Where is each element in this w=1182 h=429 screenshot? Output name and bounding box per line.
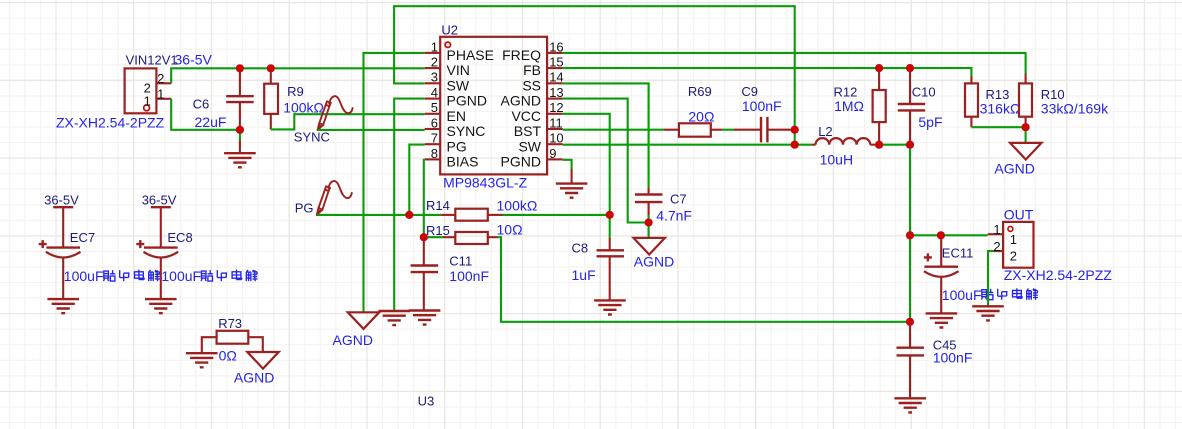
svg-text:C6: C6 bbox=[193, 97, 210, 112]
svg-text:ZX-XH2.54-2PZZ: ZX-XH2.54-2PZZ bbox=[56, 115, 165, 131]
svg-text:PG: PG bbox=[447, 138, 467, 154]
wire SW (pin3) top loop bbox=[394, 6, 795, 130]
svg-text:13: 13 bbox=[549, 85, 563, 100]
wire BIAS (pin8) down bbox=[423, 160, 426, 237]
ground (EC7) bbox=[47, 299, 79, 313]
svg-text:33kΩ/169k: 33kΩ/169k bbox=[1041, 101, 1109, 117]
svg-text:316kΩ: 316kΩ bbox=[980, 100, 1021, 116]
svg-text:14: 14 bbox=[549, 70, 563, 85]
svg-text:1uF: 1uF bbox=[572, 267, 596, 283]
svg-text:4: 4 bbox=[431, 85, 438, 100]
svg-text:C11: C11 bbox=[449, 253, 472, 268]
svg-text:EN: EN bbox=[447, 108, 466, 124]
junction C6 bottom bbox=[236, 126, 244, 134]
capacitor C8 bbox=[609, 238, 611, 250]
svg-text:16: 16 bbox=[549, 39, 563, 54]
svg-text:10Ω: 10Ω bbox=[497, 222, 523, 238]
svg-text:PGND: PGND bbox=[447, 93, 487, 109]
svg-text:R9: R9 bbox=[287, 84, 304, 99]
svg-text:12: 12 bbox=[549, 100, 563, 115]
svg-text:1: 1 bbox=[993, 222, 1000, 237]
svg-text:C10: C10 bbox=[912, 85, 936, 100]
svg-text:6: 6 bbox=[431, 115, 438, 130]
resistor R69 bbox=[664, 129, 679, 131]
svg-text:R15: R15 bbox=[426, 223, 450, 238]
wire PGND (pin4) down-left bbox=[394, 99, 425, 311]
ground (C8) bbox=[594, 300, 626, 314]
junction R10 bottom bbox=[1022, 123, 1030, 131]
svg-text:R73: R73 bbox=[218, 316, 242, 331]
junction VIN/C6 bbox=[236, 64, 244, 72]
inductor L2 bbox=[812, 144, 816, 146]
svg-text:100uF: 100uF bbox=[161, 268, 201, 284]
junction PG/pin7 bbox=[405, 211, 413, 219]
svg-text:C8: C8 bbox=[572, 240, 589, 255]
junction OUT rail bbox=[906, 231, 914, 239]
pin 11 BST bbox=[547, 128, 563, 130]
svg-text:U2: U2 bbox=[441, 22, 458, 37]
svg-text:1MΩ: 1MΩ bbox=[834, 98, 864, 114]
pin 5 EN bbox=[425, 113, 441, 115]
wire PHASE (pin1) down-left bbox=[364, 53, 425, 312]
resistor R15 bbox=[424, 236, 443, 238]
junction bottom rail/C45 bbox=[906, 318, 914, 326]
wire R15 right down to bottom rail bbox=[497, 237, 910, 322]
ground (C11) bbox=[409, 311, 441, 325]
junction BIAS/R15/C11 bbox=[420, 233, 428, 241]
svg-text:4.7nF: 4.7nF bbox=[656, 208, 692, 224]
wire R14 right to VCC node bbox=[503, 214, 610, 216]
svg-text:20Ω: 20Ω bbox=[688, 108, 714, 124]
svg-text:PG: PG bbox=[295, 201, 314, 216]
wire PG (pin7) down-left bbox=[409, 145, 424, 215]
ground (pin9) bbox=[556, 184, 588, 198]
wire SW node to OUT rail bbox=[910, 234, 988, 236]
capacitor C11 bbox=[423, 237, 425, 265]
pin 13 AGND bbox=[547, 98, 563, 100]
pin 15 FB bbox=[547, 67, 563, 69]
svg-text:11: 11 bbox=[549, 115, 563, 130]
svg-text:100nF: 100nF bbox=[742, 98, 782, 114]
svg-text:C7: C7 bbox=[670, 191, 687, 206]
capacitor C7 bbox=[648, 188, 650, 195]
svg-text:36-5V: 36-5V bbox=[175, 51, 213, 67]
svg-text:R14: R14 bbox=[426, 198, 450, 213]
AGND symbol (R13/R10) bbox=[1010, 143, 1041, 160]
svg-text:SS: SS bbox=[522, 77, 541, 93]
svg-text:1: 1 bbox=[157, 87, 164, 102]
svg-text:SYNC: SYNC bbox=[294, 129, 330, 144]
resistor R73 bbox=[217, 331, 249, 344]
AGND symbol (C7) bbox=[634, 238, 665, 255]
svg-text:1: 1 bbox=[431, 39, 438, 54]
pin 10 SW bbox=[547, 143, 563, 145]
svg-text:C9: C9 bbox=[741, 84, 758, 99]
wire SS (pin14) to C7 bbox=[563, 83, 649, 188]
svg-text:3: 3 bbox=[431, 70, 438, 85]
svg-text:VIN12V1: VIN12V1 bbox=[126, 52, 178, 67]
svg-text:7: 7 bbox=[431, 131, 438, 146]
svg-text:100uF: 100uF bbox=[64, 268, 104, 284]
svg-text:15: 15 bbox=[549, 55, 563, 70]
svg-text:MP9843GL-Z: MP9843GL-Z bbox=[443, 174, 527, 190]
ground (OUT pin2) bbox=[972, 306, 1004, 320]
svg-text:1: 1 bbox=[1010, 232, 1017, 247]
ground (EC8) bbox=[145, 299, 177, 313]
probe squiggle SYNC bbox=[318, 96, 353, 130]
svg-text:BIAS: BIAS bbox=[447, 154, 479, 170]
svg-text:2: 2 bbox=[431, 55, 438, 70]
resistor R10 bbox=[1025, 74, 1027, 84]
svg-text:EC11: EC11 bbox=[942, 245, 974, 260]
wire C9 right vertical to SW rail bbox=[794, 130, 796, 145]
svg-text:100nF: 100nF bbox=[449, 268, 489, 284]
ground (C45) bbox=[894, 398, 926, 412]
junction VCC/R14 bbox=[606, 211, 614, 219]
wire SW (pin10) to L2 bbox=[563, 144, 812, 146]
svg-text:PGND: PGND bbox=[501, 154, 541, 170]
wire R69 to C9 bbox=[722, 129, 734, 131]
wire connector pin1 to C6 bottom bbox=[171, 99, 240, 130]
junction FB/C10 bbox=[906, 64, 914, 72]
ground (C6) bbox=[239, 130, 241, 141]
AGND symbol (PHASE net) bbox=[348, 312, 379, 329]
pin 6 SYNC bbox=[425, 128, 441, 130]
svg-text:U3: U3 bbox=[418, 393, 435, 408]
junction VIN/R9 bbox=[267, 64, 275, 72]
svg-text:2: 2 bbox=[993, 239, 1000, 254]
wire PG rail bbox=[317, 214, 441, 216]
svg-text:1: 1 bbox=[144, 93, 151, 108]
svg-text:5: 5 bbox=[431, 100, 438, 115]
pin 16 FREQ bbox=[547, 52, 563, 54]
ground (PGND pin4) bbox=[378, 311, 410, 325]
resistor R14 bbox=[441, 214, 455, 216]
svg-text:10uH: 10uH bbox=[820, 151, 853, 167]
pin 9 PGND bbox=[547, 158, 563, 160]
wire PGND (pin9) to ground bbox=[563, 160, 572, 169]
pin 4 PGND bbox=[425, 98, 441, 100]
pin 8 BIAS bbox=[425, 158, 441, 160]
svg-text:9: 9 bbox=[549, 146, 556, 161]
svg-text:EC8: EC8 bbox=[167, 230, 192, 245]
svg-text:R69: R69 bbox=[688, 84, 712, 99]
junction C9/SW bbox=[791, 141, 799, 149]
AGND symbol (R73) bbox=[247, 352, 278, 369]
electrolytic capacitor EC7 bbox=[46, 246, 80, 248]
wire L2 right / SW node bbox=[875, 145, 910, 322]
junction C7/AGND13 bbox=[645, 218, 653, 226]
wire VCC (pin12) down to C8 bbox=[563, 114, 610, 238]
junction L2/R12 bbox=[875, 141, 883, 149]
svg-text:PHASE: PHASE bbox=[447, 47, 494, 63]
junction FB/R12 bbox=[875, 64, 883, 72]
svg-text:EC7: EC7 bbox=[70, 230, 95, 245]
svg-text:AGND: AGND bbox=[234, 369, 274, 385]
svg-text:36-5V: 36-5V bbox=[44, 193, 79, 208]
pin 1 PHASE bbox=[425, 52, 441, 54]
pin 2 VIN bbox=[425, 67, 441, 69]
junction EC11 bbox=[937, 231, 945, 239]
svg-text:VIN: VIN bbox=[447, 62, 470, 78]
electrolytic capacitor EC8 bbox=[144, 246, 178, 248]
svg-text:SW: SW bbox=[518, 138, 541, 154]
wire VIN rail bbox=[171, 68, 425, 83]
ground (EC11) bbox=[926, 313, 958, 327]
svg-text:5pF: 5pF bbox=[918, 114, 942, 130]
ground (R73 left) bbox=[186, 353, 218, 367]
svg-text:FB: FB bbox=[523, 62, 541, 78]
wire SYNC to pin6 bbox=[318, 129, 425, 131]
resistor R9 bbox=[270, 68, 272, 83]
wire R13/R10 bottom to AGND bbox=[971, 127, 1025, 143]
capacitor C10 bbox=[909, 68, 911, 104]
svg-text:BST: BST bbox=[514, 123, 542, 139]
svg-text:L2: L2 bbox=[818, 124, 832, 139]
svg-text:FREQ: FREQ bbox=[502, 47, 541, 63]
svg-text:100nF: 100nF bbox=[933, 350, 973, 366]
capacitor C6 bbox=[239, 68, 241, 96]
connector P? ZX-XH2.54-2PZZ (input) bbox=[125, 68, 157, 113]
svg-text:SW: SW bbox=[447, 77, 470, 93]
svg-text:100kΩ: 100kΩ bbox=[497, 197, 538, 213]
wire AGND (pin13) bbox=[563, 99, 649, 223]
wire BST (pin11) to R69 bbox=[563, 129, 664, 131]
resistor R12 bbox=[878, 68, 880, 90]
svg-text:ZX-XH2.54-2PZZ: ZX-XH2.54-2PZZ bbox=[1004, 267, 1113, 283]
capacitor C45 bbox=[909, 322, 911, 348]
wire OUT pin2 to ground bbox=[988, 251, 994, 306]
pin 14 SS bbox=[547, 82, 563, 84]
svg-text:100kΩ: 100kΩ bbox=[283, 99, 324, 115]
junction SW/C10 bbox=[906, 141, 914, 149]
svg-text:22uF: 22uF bbox=[195, 114, 227, 130]
connector OUT ZX-XH2.54-2PZZ bbox=[1003, 222, 1033, 268]
svg-text:AGND: AGND bbox=[501, 93, 541, 109]
svg-text:100uF: 100uF bbox=[942, 287, 982, 303]
pin 3 SW bbox=[425, 82, 441, 84]
svg-text:2: 2 bbox=[1010, 248, 1017, 263]
electrolytic capacitor EC11 bbox=[940, 238, 942, 267]
svg-text:AGND: AGND bbox=[333, 332, 373, 348]
svg-text:8: 8 bbox=[431, 146, 438, 161]
pin 12 VCC bbox=[547, 113, 563, 115]
resistor R13 bbox=[970, 76, 972, 83]
svg-text:0Ω: 0Ω bbox=[219, 348, 237, 364]
svg-text:AGND: AGND bbox=[994, 161, 1034, 177]
wire R9 bottom to EN (pin5) bbox=[271, 114, 425, 129]
wire FREQ (pin16) to R10 bbox=[563, 53, 1026, 74]
wire FB (pin15) rail bbox=[563, 68, 972, 76]
svg-text:AGND: AGND bbox=[634, 254, 674, 270]
op IC U2 MP9843GL-Z bbox=[440, 37, 547, 175]
svg-text:10: 10 bbox=[549, 131, 563, 146]
svg-text:SYNC: SYNC bbox=[447, 123, 486, 139]
svg-text:36-5V: 36-5V bbox=[142, 193, 177, 208]
svg-text:VCC: VCC bbox=[511, 108, 541, 124]
svg-text:OUT: OUT bbox=[1004, 207, 1034, 223]
probe squiggle PG bbox=[317, 181, 352, 215]
svg-text:2: 2 bbox=[157, 71, 164, 86]
junction C9/BST bbox=[791, 126, 799, 134]
pin 7 PG bbox=[425, 143, 441, 145]
capacitor C9 bbox=[734, 129, 761, 131]
